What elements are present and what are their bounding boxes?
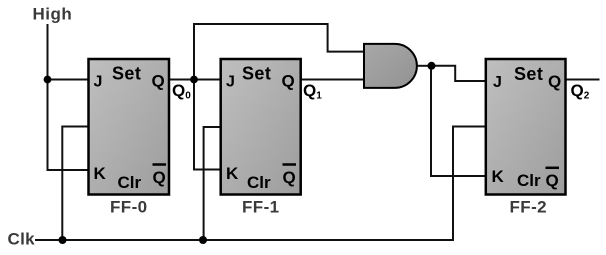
svg-text:Set: Set (112, 64, 141, 84)
svg-text:K: K (226, 164, 239, 183)
svg-text:K: K (492, 167, 505, 186)
svg-text:Q: Q (546, 171, 559, 190)
svg-text:Q: Q (152, 72, 165, 91)
svg-text:FF-2: FF-2 (510, 198, 547, 217)
svg-text:K: K (94, 164, 107, 183)
svg-text:Clr: Clr (517, 171, 541, 190)
svg-text:Clr: Clr (247, 173, 271, 192)
svg-text:FF-0: FF-0 (110, 198, 147, 217)
svg-text:FF-1: FF-1 (242, 198, 279, 217)
svg-text:Clk: Clk (8, 230, 36, 249)
svg-text:Clr: Clr (118, 173, 142, 192)
svg-text:Q: Q (283, 168, 296, 187)
svg-text:Q: Q (153, 168, 166, 187)
svg-text:Set: Set (242, 64, 271, 84)
svg-text:J: J (493, 74, 502, 91)
svg-text:J: J (226, 74, 235, 91)
svg-text:J: J (94, 74, 103, 91)
svg-text:High: High (33, 5, 73, 24)
svg-text:Q: Q (548, 72, 561, 91)
svg-text:Set: Set (514, 64, 543, 84)
svg-text:Q: Q (282, 72, 295, 91)
